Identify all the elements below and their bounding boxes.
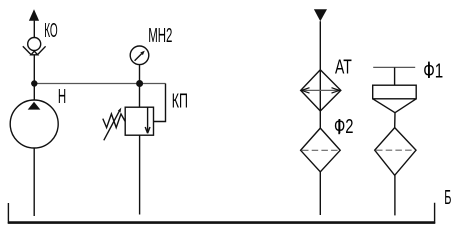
svg-text:Б: Б [444, 187, 451, 209]
svg-text:Н: Н [58, 86, 66, 108]
svg-text:АТ: АТ [335, 56, 352, 78]
svg-text:МН2: МН2 [148, 25, 172, 47]
svg-text:КО: КО [44, 20, 58, 42]
svg-text:Ф1: Ф1 [423, 61, 443, 83]
svg-text:Ф2: Ф2 [334, 116, 354, 138]
svg-text:КП: КП [172, 91, 188, 113]
